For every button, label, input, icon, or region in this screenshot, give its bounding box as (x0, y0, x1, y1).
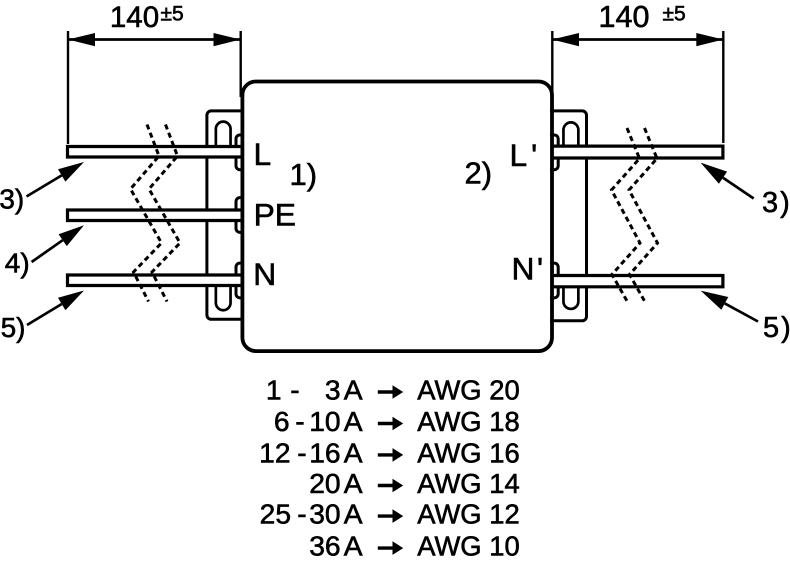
terminal N (236, 263, 244, 298)
svg-text:AWG 20: AWG 20 (417, 375, 520, 406)
callout 4) left leader line (32, 240, 63, 262)
svg-text:A: A (344, 467, 363, 499)
callout 5) right leader line (725, 303, 758, 321)
svg-text:AWG 12: AWG 12 (417, 499, 520, 530)
svg-text:1): 1) (290, 157, 318, 192)
svg-text:25: 25 (260, 498, 291, 530)
terminal N' (550, 263, 558, 298)
left dimension arrowhead left (68, 33, 95, 46)
svg-text:-: - (290, 374, 299, 406)
wire gauge table row 1: 1 - 3 A &#8594; AWG 20 (266, 374, 363, 406)
svg-text:L: L (254, 136, 272, 172)
svg-text:AWG 10: AWG 10 (417, 531, 520, 562)
wire break symbol left (dashed zigzag pair) (131, 125, 162, 302)
svg-text:140: 140 (110, 1, 159, 34)
svg-text:5): 5) (1, 312, 26, 343)
callout 3) left leader line (27, 175, 62, 196)
svg-text:2): 2) (465, 155, 493, 190)
svg-text:5): 5) (763, 312, 790, 344)
svg-text:A: A (344, 374, 363, 406)
svg-text:16: 16 (309, 436, 340, 468)
wire gauge table row 2: 6 - 10 A &#8594; AWG 18 (274, 405, 363, 437)
callout 5) left arrowhead (58, 291, 84, 311)
left dimension line (68, 38, 241, 41)
svg-text:A: A (344, 498, 363, 530)
right flange bottom slot (563, 280, 578, 309)
svg-text:PE: PE (254, 197, 296, 233)
svg-text:L': L' (510, 137, 542, 173)
svg-text:A: A (344, 405, 363, 437)
svg-text:6: 6 (274, 405, 290, 437)
svg-text:AWG 16: AWG 16 (417, 437, 520, 468)
callout 5) left leader line (27, 304, 62, 325)
svg-text:-: - (297, 436, 306, 468)
callout 5) right arrowhead (701, 291, 729, 310)
right flange top slot (563, 122, 578, 150)
wire N' (neutral lead, right) (551, 276, 723, 287)
svg-text:3): 3) (762, 187, 790, 219)
svg-text:3: 3 (325, 374, 341, 406)
right dimension line (552, 38, 723, 41)
svg-text:1: 1 (266, 374, 282, 406)
left dimension extension line (wire end) (67, 31, 69, 144)
right dimension arrowhead left (552, 33, 579, 46)
wire L' (line lead, right) (551, 146, 723, 158)
svg-text:AWG 14: AWG 14 (417, 468, 520, 499)
wire break symbol right (dashed zigzag pair) (612, 128, 641, 301)
wire gauge table row 3: 12 - 16 A &#8594; AWG 16 (259, 436, 363, 468)
svg-text:12: 12 (259, 436, 290, 468)
filter body outline (242, 82, 552, 352)
svg-text:-: - (297, 498, 306, 530)
left flange bottom slot (216, 280, 231, 310)
svg-text:±5: ±5 (161, 2, 184, 25)
left flange top slot (216, 122, 231, 150)
svg-text:20: 20 (309, 467, 340, 499)
svg-text:N': N' (512, 251, 546, 287)
svg-text:±5: ±5 (663, 2, 686, 25)
callout 3) right arrowhead (701, 163, 728, 184)
svg-text:AWG 18: AWG 18 (417, 406, 520, 437)
terminal L (236, 135, 244, 170)
left dimension arrowhead right (214, 33, 241, 46)
svg-text:30: 30 (309, 498, 340, 530)
svg-text:-: - (295, 405, 304, 437)
svg-text:10: 10 (309, 405, 340, 437)
terminal PE (236, 198, 244, 233)
svg-text:140: 140 (599, 0, 650, 34)
terminal L' (550, 135, 558, 170)
wire PE (earth lead, left) (68, 210, 244, 221)
left dimension extension line (body edge) (239, 31, 241, 97)
wire gauge table row 4: 20 A &#8594; AWG 14 (309, 467, 363, 499)
wire N (neutral lead, left) (68, 275, 244, 286)
svg-text:N: N (253, 256, 276, 292)
wire gauge table row 5: 25 - 30 A &#8594; AWG 12 (260, 498, 363, 530)
right dimension arrowhead right (696, 33, 723, 46)
svg-text:4): 4) (5, 248, 30, 279)
wire L (line lead, left) (68, 147, 244, 158)
svg-text:A: A (344, 436, 363, 468)
svg-text:3): 3) (0, 184, 24, 215)
right mounting flange plate (550, 111, 587, 321)
right dimension extension line (wire end) (722, 31, 724, 143)
left mounting flange plate (207, 111, 244, 319)
svg-text:36: 36 (309, 530, 340, 562)
right dimension extension line (body edge) (551, 31, 553, 97)
svg-text:A: A (344, 530, 363, 562)
callout 3) right leader line (723, 178, 754, 199)
callout 3) left arrowhead (58, 162, 84, 182)
callout 4) left arrowhead (59, 225, 84, 246)
wire gauge table row 6: 36 A &#8594; AWG 10 (309, 530, 363, 562)
